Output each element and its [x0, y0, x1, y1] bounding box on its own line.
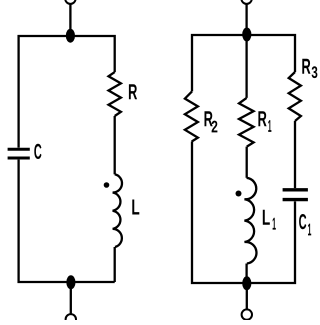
polarity dot of L [104, 182, 110, 188]
polarity dot of L1 [236, 191, 242, 197]
capacitor C1 top plate [283, 188, 308, 191]
wire top-right terminal lead and middle branch to R1 [245, 4, 247, 98]
label R3 main [302, 59, 310, 74]
label L1 sub [273, 218, 276, 230]
wire left circuit top U [19, 36, 115, 148]
inductor L1 [244, 178, 256, 264]
label R [129, 84, 137, 99]
node junction dot bottom-left [66, 275, 75, 289]
label R2 sub [212, 121, 218, 133]
node junction dot top-left [66, 29, 75, 43]
capacitor C bottom plate [8, 157, 30, 160]
wire right circuit bottom U [192, 142, 295, 284]
label L [132, 199, 139, 214]
label L1 main [263, 210, 270, 225]
label R1 sub [268, 120, 271, 132]
capacitor C1 bottom plate [283, 198, 308, 201]
label C1 sub [308, 224, 311, 236]
wire R1 to L1 [246, 147, 248, 178]
wire bottom-right terminal lead [246, 283, 248, 310]
node junction dot top-right [242, 28, 251, 42]
label R2 main [205, 111, 213, 126]
wire left circuit bottom U [19, 160, 115, 282]
node junction dot bottom-right [242, 276, 251, 290]
wire R3 to C1 [294, 121, 296, 188]
wire L to bottom [114, 247, 116, 282]
label R3 sub [312, 66, 318, 78]
terminal top-right [241, 0, 251, 4]
wire top-left terminal lead [69, 4, 71, 35]
inductor L [113, 174, 122, 247]
wire R to L [114, 116, 116, 174]
capacitor C top plate [8, 148, 30, 151]
resistor R [109, 72, 121, 116]
wire L1 to bottom [245, 264, 247, 284]
label C1 main [299, 214, 306, 229]
label C [34, 144, 41, 159]
resistor R1 [239, 98, 254, 147]
wire bottom-left terminal lead [70, 282, 72, 314]
resistor R3 [289, 72, 301, 121]
resistor R2 [185, 91, 198, 141]
terminal bottom-right [242, 309, 252, 319]
wire right circuit top U [192, 35, 295, 91]
label R1 main [258, 111, 266, 126]
terminal bottom-left [66, 314, 76, 324]
terminal top-left [65, 0, 75, 4]
